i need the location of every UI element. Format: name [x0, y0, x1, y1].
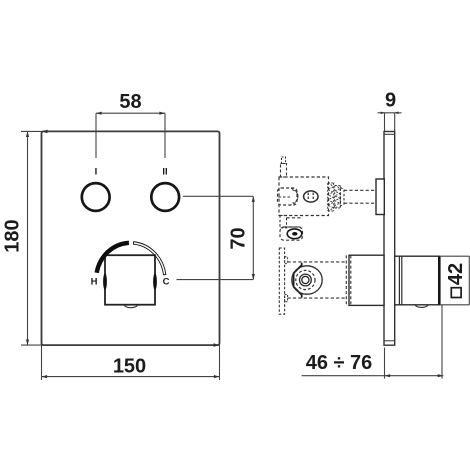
dimension 70 leader top: [183, 195, 253, 197]
inlet fitting bracket curve: [291, 188, 298, 204]
inlet fitting midline: [279, 196, 292, 198]
svg-text:46 ÷ 76: 46 ÷ 76: [306, 352, 373, 374]
dimension 70 line: [252, 196, 254, 279]
dimension 46-76 extension right: [441, 305, 443, 379]
cold arc: [133, 242, 165, 275]
dimension 42 square symbol: [451, 288, 461, 298]
dimension 9 arrow right: [395, 112, 399, 115]
plate corner arrow top-left: [42, 130, 48, 134]
outlet screw center: [292, 232, 297, 236]
button I: [82, 183, 110, 211]
thread section outer: [328, 183, 334, 211]
outlet bracket top line: [287, 217, 304, 219]
svg-text:180: 180: [2, 219, 24, 252]
dimension 46-76 line: [302, 375, 444, 377]
svg-text:C: C: [163, 277, 170, 288]
svg-text:150: 150: [113, 356, 146, 378]
hot arc: [97, 243, 129, 273]
dimension 70 arrow top: [252, 196, 255, 202]
dimension 9 arrow left: [381, 112, 385, 115]
thread section inner: [335, 186, 341, 209]
dimension 180 arrow bottom: [26, 340, 29, 346]
dimension 70 arrow bottom: [252, 274, 255, 280]
dimension 70 leader bottom: [177, 279, 254, 281]
knob side tab left: [103, 273, 107, 290]
bonnet block at wall: [376, 179, 384, 215]
dimension 9 line: [378, 112, 402, 114]
dimension 150 extension line right: [219, 345, 221, 380]
outlet bracket bottom line: [287, 226, 304, 228]
knob lever tab: [415, 305, 428, 308]
knob base line 2: [401, 256, 403, 305]
svg-text:42: 42: [445, 263, 467, 285]
cartridge hex nut flats: [294, 263, 302, 298]
outlet elbow: [280, 227, 303, 240]
outlet screw ellipse: [287, 229, 302, 239]
cartridge outer circle: [292, 266, 322, 294]
lower flange bump bottom: [285, 295, 288, 302]
spindle shaft bottom: [344, 202, 376, 204]
dimension 46-76 arrow right: [438, 374, 444, 377]
knob side box: [395, 256, 440, 305]
dimension 9 extension right: [394, 113, 396, 132]
knob base line 1: [398, 256, 400, 305]
dimension 180 arrow top: [26, 131, 29, 137]
dimension 42 extension top: [440, 255, 470, 257]
knob bottom tab: [125, 305, 138, 308]
outlet bracket strip: [280, 216, 287, 228]
button II: [151, 183, 179, 211]
cartridge center ring: [302, 276, 309, 283]
dimension 58 line: [96, 112, 165, 114]
lower joint dashed line right: [350, 255, 352, 305]
dimension 58 arrow right: [159, 112, 165, 115]
dimension 150 line: [42, 376, 220, 378]
spindle shaft top: [344, 189, 376, 191]
dimension 42 extension bottom: [440, 304, 470, 306]
wall plate side view: [384, 132, 395, 346]
lower body hidden top line: [288, 261, 347, 263]
valve top mini stub: [282, 157, 286, 164]
valve body upper (hidden): [279, 177, 329, 216]
dimension 58 extension line right: [164, 113, 166, 158]
front plate 150x180: [42, 131, 220, 345]
lower flange strip: [279, 248, 284, 314]
svg-text:70: 70: [228, 227, 250, 249]
knob square: [105, 255, 155, 305]
knob front face thick: [438, 256, 441, 305]
lower body hidden bottom line: [288, 297, 347, 299]
svg-text:I: I: [95, 167, 98, 178]
cartridge mid circle: [300, 274, 312, 286]
knob side tab right: [153, 273, 157, 290]
dimension 180 line: [27, 131, 29, 345]
dimension 46-76 arrow left: [385, 374, 391, 377]
lower solid body: [349, 255, 384, 305]
dimension 42 line: [468, 256, 470, 305]
screw oval slot right: [312, 193, 314, 201]
dimension 150 arrow left: [42, 375, 48, 378]
dimension 9 extension left: [384, 113, 386, 132]
lower flange bump top: [285, 257, 288, 264]
cartridge dashed circle: [296, 270, 315, 289]
screw oval slot left: [307, 193, 309, 201]
valve top stub: [281, 164, 287, 178]
dimension 58 arrow left: [96, 112, 102, 115]
dimension 150 arrow right: [214, 375, 220, 378]
dimension 58 extension line left: [95, 113, 97, 158]
thread cone: [341, 188, 345, 207]
dimension 46-76 extension left: [384, 348, 386, 379]
svg-text:58: 58: [119, 91, 141, 113]
dimension 180 extension line bottom: [21, 344, 42, 346]
dimension 180 extension line top: [21, 130, 42, 132]
inlet fitting upper: [278, 188, 298, 205]
svg-text:II: II: [162, 167, 167, 178]
lower joint dashed line left: [345, 255, 347, 305]
plate corner arrow bottom-right: [214, 343, 220, 347]
dimension 150 extension line left: [41, 345, 43, 380]
svg-text:9: 9: [385, 90, 396, 112]
wall plate top chamfer line: [384, 133, 395, 135]
wall plate bottom chamfer line: [384, 340, 395, 342]
svg-text:H: H: [91, 277, 98, 288]
screw oval upper: [304, 191, 318, 202]
